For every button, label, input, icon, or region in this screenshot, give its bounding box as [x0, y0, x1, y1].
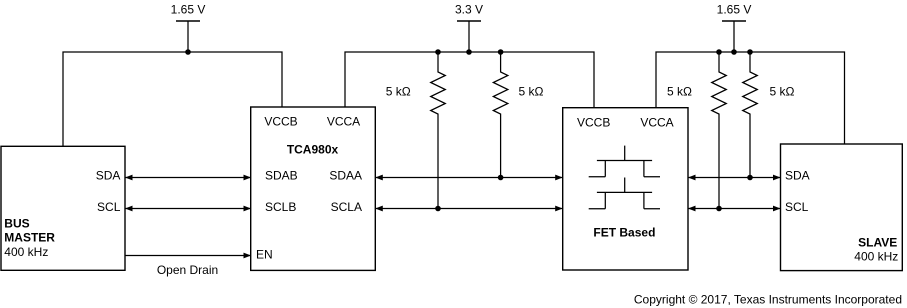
- svg-text:SDAA: SDAA: [329, 169, 362, 183]
- svg-text:400 kHz: 400 kHz: [4, 245, 48, 259]
- svg-text:Copyright © 2017, Texas Instru: Copyright © 2017, Texas Instruments Inco…: [634, 292, 902, 306]
- svg-text:FET Based: FET Based: [593, 225, 655, 239]
- svg-text:5 kΩ: 5 kΩ: [770, 85, 795, 99]
- svg-text:1.65 V: 1.65 V: [717, 3, 752, 17]
- svg-text:SCL: SCL: [785, 200, 809, 214]
- svg-text:BUS: BUS: [4, 217, 29, 231]
- svg-text:VCCB: VCCB: [577, 115, 610, 129]
- svg-text:SCLA: SCLA: [331, 200, 362, 214]
- svg-text:5 kΩ: 5 kΩ: [386, 85, 411, 99]
- svg-text:EN: EN: [256, 248, 273, 262]
- svg-text:1.65 V: 1.65 V: [171, 3, 206, 17]
- svg-text:5 kΩ: 5 kΩ: [667, 85, 692, 99]
- svg-text:VCCA: VCCA: [327, 115, 360, 129]
- svg-text:5 kΩ: 5 kΩ: [519, 85, 544, 99]
- svg-text:VCCB: VCCB: [264, 115, 297, 129]
- svg-text:Open Drain: Open Drain: [157, 263, 218, 277]
- svg-text:SCL: SCL: [97, 200, 121, 214]
- svg-text:3.3 V: 3.3 V: [455, 3, 483, 17]
- svg-text:TCA980x: TCA980x: [287, 143, 339, 157]
- svg-text:SDA: SDA: [785, 169, 810, 183]
- svg-text:MASTER: MASTER: [4, 231, 55, 245]
- svg-text:SCLB: SCLB: [265, 200, 296, 214]
- svg-text:400 kHz: 400 kHz: [854, 250, 898, 264]
- svg-text:SLAVE: SLAVE: [858, 236, 897, 250]
- svg-text:SDA: SDA: [96, 169, 121, 183]
- svg-text:VCCA: VCCA: [640, 115, 673, 129]
- svg-text:SDAB: SDAB: [265, 169, 298, 183]
